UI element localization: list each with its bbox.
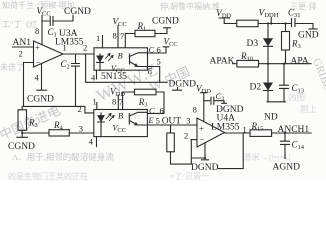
svg-text:E: E xyxy=(146,66,153,76)
svg-text:E: E xyxy=(147,115,154,125)
svg-text:5: 5 xyxy=(157,57,161,67)
op-amp U4A xyxy=(197,118,225,147)
wire AN1 to + input xyxy=(13,46,34,48)
svg-text:C: C xyxy=(149,45,155,55)
svg-text:−: − xyxy=(36,57,41,67)
capacitor C2 xyxy=(72,54,80,106)
light arrows xyxy=(106,54,114,61)
svg-text:A、用于,相邻的酸溶健身流: A、用于,相邻的酸溶健身流 xyxy=(12,152,114,162)
svg-text:的是生物门王某的正在: 的是生物门王某的正在 xyxy=(8,171,88,181)
svg-text:2: 2 xyxy=(78,104,82,114)
svg-text:DGND: DGND xyxy=(169,80,197,90)
svg-text:6: 6 xyxy=(160,106,164,116)
svg-text:2: 2 xyxy=(83,43,87,53)
svg-text:3: 3 xyxy=(186,116,190,126)
optocoupler U5 body xyxy=(94,103,148,137)
pin 7 stem and resistor R1 xyxy=(125,28,170,48)
wire U3A output xyxy=(63,53,94,55)
svg-text:CGND: CGND xyxy=(64,7,91,17)
svg-text:1: 1 xyxy=(96,33,100,43)
LED D1 xyxy=(97,54,104,70)
power VDD stem (U4A pin 8) xyxy=(201,93,207,122)
diode D3 xyxy=(264,22,273,63)
svg-text:2: 2 xyxy=(184,131,188,141)
svg-text:8: 8 xyxy=(193,105,197,115)
svg-text:+: + xyxy=(199,124,204,134)
svg-text:APAK: APAK xyxy=(210,57,235,67)
svg-text:+: + xyxy=(35,42,40,52)
svg-text:GND: GND xyxy=(298,31,319,41)
power VDD rail top right xyxy=(219,18,237,24)
wire U4A output xyxy=(225,132,251,134)
svg-text:4: 4 xyxy=(89,137,94,147)
svg-text:OUT: OUT xyxy=(162,117,182,127)
pin 4 stub xyxy=(96,137,98,147)
svg-text:3: 3 xyxy=(79,124,83,134)
svg-text:8: 8 xyxy=(35,26,39,36)
capacitor C14 xyxy=(281,133,290,159)
LED D4 xyxy=(98,113,105,137)
svg-text:C: C xyxy=(149,106,155,116)
pin 8 stem (opto1) xyxy=(117,26,119,48)
svg-text:CGND: CGND xyxy=(152,17,179,27)
svg-text:伸,胡鲁中福纳,维: 伸,胡鲁中福纳,维 xyxy=(160,1,220,11)
svg-text:8: 8 xyxy=(112,97,116,107)
capacitor C31 xyxy=(292,19,318,29)
watermark background text xyxy=(0,0,326,181)
svg-text:7: 7 xyxy=(120,31,124,41)
resistor R5 pulldown xyxy=(167,125,192,164)
capacitor C3 xyxy=(204,97,227,104)
svg-text:1: 1 xyxy=(243,125,247,135)
resistor R6 xyxy=(237,20,258,27)
svg-text:LM355: LM355 xyxy=(55,38,84,48)
svg-text:1: 1 xyxy=(93,97,97,107)
wire pin 2 input xyxy=(191,139,197,141)
svg-text:−: − xyxy=(200,135,205,145)
svg-text:AN1: AN1 xyxy=(13,38,32,48)
svg-text:D3: D3 xyxy=(247,39,259,49)
power VDD stem (opto2 pin 8) xyxy=(117,95,119,110)
capacitor C1 xyxy=(42,15,73,25)
wire outer loop (cathode/emitter return) xyxy=(86,54,167,82)
svg-text:B: B xyxy=(118,51,123,61)
svg-text:AGND: AGND xyxy=(273,163,301,173)
wire feedback loop xyxy=(191,133,243,169)
resistor R15 xyxy=(250,130,311,137)
wire node rail to optocoupler 2 anode xyxy=(24,106,94,113)
wire bottom rail with R4 xyxy=(21,130,94,136)
svg-text:CGND: CGND xyxy=(27,95,54,105)
resistor R3 (left) xyxy=(17,106,28,137)
phototransistor Q1 xyxy=(130,53,148,67)
svg-text:D2: D2 xyxy=(250,83,262,93)
phototransistor Q2 xyxy=(129,112,147,125)
svg-text:8: 8 xyxy=(113,31,117,41)
capacitor C13 xyxy=(280,64,289,102)
wire emitter OUT to U4A xyxy=(147,124,197,126)
svg-text:6: 6 xyxy=(157,45,161,55)
wire collector to Vcc xyxy=(148,47,169,53)
svg-text:B: B xyxy=(118,111,123,121)
light arrows 2 xyxy=(107,114,115,121)
svg-text:7: 7 xyxy=(119,97,123,107)
svg-text:5: 5 xyxy=(156,116,160,126)
svg-text:ND: ND xyxy=(264,113,278,123)
ground DGND (U4A pin 4) xyxy=(202,143,209,160)
svg-text:DGND: DGND xyxy=(191,163,219,173)
ground CGND (U3A pin 4) xyxy=(37,64,47,90)
wire pin2 feedback xyxy=(24,63,34,107)
svg-text:工“丁《红: 工“丁《红 xyxy=(2,19,38,29)
node ND bar xyxy=(267,101,286,103)
svg-text:1: 1 xyxy=(63,43,67,53)
svg-text:2: 2 xyxy=(19,49,23,59)
pin 7 stem and resistor R2 xyxy=(123,89,164,113)
svg-text:5N135: 5N135 xyxy=(101,72,127,82)
resistor R3 (right) xyxy=(282,22,290,63)
svg-text:附上: 附上 xyxy=(300,104,318,114)
svg-text:ANCH1: ANCH1 xyxy=(278,125,310,135)
svg-text:CGND: CGND xyxy=(8,142,35,152)
svg-text:未迭了: 未迭了 xyxy=(0,62,24,72)
wire to VDDH node xyxy=(258,18,290,25)
op-amp U3A xyxy=(34,41,64,67)
wire APAK rail with R10 xyxy=(233,60,312,67)
optocoupler U2 5N135 body xyxy=(94,36,148,80)
diode D2 xyxy=(264,64,273,102)
svg-text:LM355: LM355 xyxy=(211,123,240,133)
svg-text:滑米→(|=|=U: 滑米→(|=|=U xyxy=(243,152,290,162)
svg-text:APA: APA xyxy=(291,57,309,67)
power Vcc (U3A pin 8) xyxy=(41,16,43,45)
ground DGND (opto1 emitter) xyxy=(173,88,182,91)
